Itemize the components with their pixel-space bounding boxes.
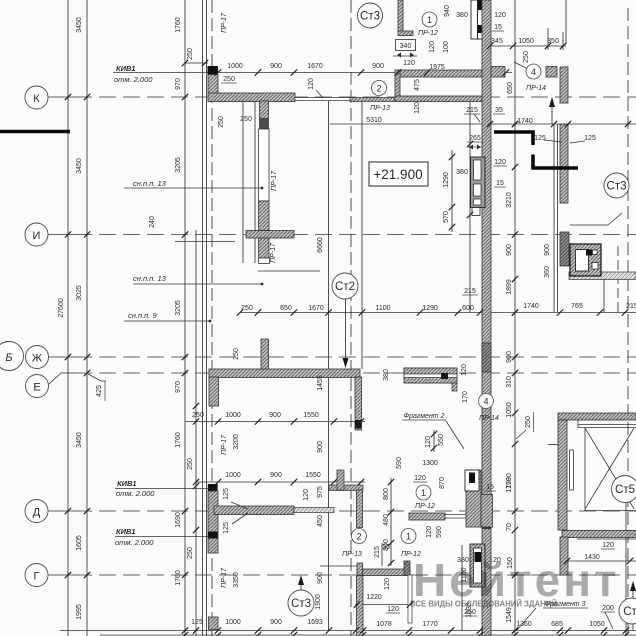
svg-text:250: 250 <box>218 116 225 128</box>
svg-text:6660: 6660 <box>317 237 324 253</box>
leader 215 K wall <box>474 114 480 122</box>
svg-text:1000: 1000 <box>225 412 241 419</box>
node axis-3 centerline <box>627 8 629 636</box>
dimension line 250 mini top <box>185 62 208 64</box>
PR-12 wall notch <box>481 495 493 528</box>
wire <box>67 0 69 636</box>
svg-text:120: 120 <box>308 78 315 90</box>
dimension line 5310/1740 <box>330 123 636 125</box>
svg-text:120: 120 <box>461 364 468 376</box>
wall top-left black pier <box>208 66 219 75</box>
elevator top band <box>558 413 636 420</box>
D axis band <box>214 506 294 515</box>
svg-text:360: 360 <box>544 266 551 278</box>
opening circle 4 mid <box>479 394 494 409</box>
svg-text:900: 900 <box>544 244 551 256</box>
elevator cab cross <box>585 428 634 509</box>
wire <box>562 32 564 50</box>
axis circle Г <box>25 564 48 587</box>
dimension line 1220 <box>355 604 410 606</box>
svg-text:1455: 1455 <box>317 375 324 391</box>
wire <box>320 565 357 567</box>
wall leg below pier <box>208 75 218 94</box>
Zh wall band <box>209 369 360 378</box>
svg-text:215: 215 <box>374 546 381 558</box>
wire <box>603 279 605 312</box>
svg-text:215: 215 <box>626 303 636 310</box>
svg-text:1760: 1760 <box>175 17 182 33</box>
svg-text:1550: 1550 <box>305 472 321 479</box>
elevator bottom band <box>562 531 636 538</box>
axis circle Е <box>26 375 49 398</box>
svg-text:170: 170 <box>462 391 469 403</box>
svg-text:250: 250 <box>223 76 235 83</box>
shaft mid ПР-12 <box>465 470 479 491</box>
dimension line 1430 <box>567 560 636 562</box>
svg-text:480: 480 <box>383 514 390 526</box>
leader fragment2 <box>446 421 464 449</box>
svg-text:3025: 3025 <box>76 285 83 301</box>
svg-text:900: 900 <box>270 63 282 70</box>
wire <box>625 503 627 636</box>
wire <box>565 0 567 44</box>
section circle Ст3 bottom <box>288 590 314 616</box>
svg-text:1: 1 <box>421 488 426 498</box>
svg-text:120: 120 <box>414 475 426 482</box>
opening circle 1 low <box>401 529 416 544</box>
wire <box>548 444 558 446</box>
dimension line bottom chain 2 <box>100 634 636 636</box>
leader 120 wall <box>316 90 323 98</box>
small band low-mid <box>329 485 363 491</box>
svg-text:550: 550 <box>438 434 445 446</box>
axis circle Б double <box>0 345 21 368</box>
svg-text:590: 590 <box>396 457 403 469</box>
svg-text:380: 380 <box>383 369 390 381</box>
wire <box>514 0 516 636</box>
svg-text:350: 350 <box>547 38 559 45</box>
svg-text:900: 900 <box>269 412 281 419</box>
svg-text:Ж: Ж <box>32 353 42 365</box>
svg-text:685: 685 <box>551 621 563 628</box>
I axis T-wall: dark foot <box>260 118 268 129</box>
svg-text:1770: 1770 <box>422 621 438 628</box>
svg-text:3210: 3210 <box>506 192 513 208</box>
node dot c <box>209 320 212 323</box>
line below elevator band <box>577 538 636 540</box>
axis Zh line <box>48 356 75 358</box>
svg-text:ПР-14: ПР-14 <box>479 415 499 422</box>
svg-text:3200: 3200 <box>233 434 240 450</box>
node dot b <box>261 283 264 286</box>
svg-text:870: 870 <box>439 477 446 489</box>
svg-text:1670: 1670 <box>307 63 323 70</box>
svg-text:250: 250 <box>192 412 204 419</box>
node КИВ1 leader mid <box>115 488 209 490</box>
D axis black pier 2 <box>208 532 218 539</box>
svg-text:1760: 1760 <box>175 432 182 448</box>
svg-text:900: 900 <box>270 472 282 479</box>
hatched square pier b <box>491 67 505 78</box>
svg-text:15: 15 <box>486 484 494 491</box>
svg-text:1690: 1690 <box>175 512 182 528</box>
axis circle И <box>25 223 48 246</box>
svg-text:ПР-14: ПР-14 <box>526 85 546 92</box>
svg-text:345: 345 <box>491 38 503 45</box>
leader 425 <box>88 374 106 381</box>
D axis lower leg hatch <box>209 617 219 630</box>
svg-text:КИВ1: КИВ1 <box>117 479 137 488</box>
elevator lower left wall <box>560 537 568 575</box>
dimension line bottom chain <box>60 630 636 632</box>
svg-text:970: 970 <box>175 78 182 90</box>
svg-text:240: 240 <box>149 216 156 228</box>
thick L1 <box>494 132 533 145</box>
wire <box>86 0 88 636</box>
svg-text:сн.п.п. 13: сн.п.п. 13 <box>133 179 167 188</box>
svg-text:35: 35 <box>495 107 503 114</box>
svg-text:215: 215 <box>466 107 478 114</box>
svg-text:125: 125 <box>584 135 596 142</box>
Zh wall left leg <box>209 377 219 406</box>
svg-text:340: 340 <box>400 43 412 50</box>
svg-text:КИВ1: КИВ1 <box>116 64 136 73</box>
PR-12 wall column <box>466 470 481 527</box>
axis E line <box>60 372 75 374</box>
svg-text:3205: 3205 <box>175 300 182 316</box>
wire <box>557 124 559 312</box>
svg-text:450: 450 <box>317 515 324 527</box>
svg-text:600: 600 <box>462 305 474 312</box>
svg-text:1000: 1000 <box>227 63 243 70</box>
svg-text:970: 970 <box>175 381 182 393</box>
svg-text:975: 975 <box>317 486 324 498</box>
svg-text:1220: 1220 <box>366 594 382 601</box>
dimension line 800/480/800 vertical <box>390 478 392 566</box>
svg-text:125: 125 <box>223 522 230 534</box>
dimension line 550/120 vertical <box>433 430 435 452</box>
svg-text:125: 125 <box>191 619 203 626</box>
leader E circle <box>49 374 60 384</box>
opening circle 2 low <box>352 529 367 544</box>
wall top room ПР-12 left <box>398 0 403 32</box>
svg-text:4: 4 <box>531 67 536 77</box>
svg-text:сн.п.п. 13: сн.п.п. 13 <box>133 274 167 283</box>
svg-text:570: 570 <box>443 211 450 223</box>
svg-text:1550: 1550 <box>303 412 319 419</box>
dimension line top <box>113 72 512 74</box>
node сн.п.п.13 line a <box>124 187 262 189</box>
G wall below <box>357 576 364 636</box>
leader circle4 top <box>514 62 526 68</box>
svg-text:100: 100 <box>443 41 450 53</box>
svg-text:ПР-17: ПР-17 <box>270 242 277 263</box>
node dot a <box>261 187 264 190</box>
section circle Ст4 bottom right <box>619 598 636 624</box>
elevator left wall <box>558 420 567 530</box>
svg-text:120: 120 <box>425 436 432 448</box>
svg-text:1360: 1360 <box>516 621 532 628</box>
shaft bottom <box>470 544 485 587</box>
node КИВ1 leader low <box>115 536 209 538</box>
svg-text:Ст5: Ст5 <box>615 484 635 496</box>
svg-text:200: 200 <box>602 605 614 612</box>
leader fragment3 <box>517 608 536 630</box>
svg-text:250: 250 <box>525 416 532 428</box>
svg-text:1290: 1290 <box>443 172 450 188</box>
svg-text:4: 4 <box>483 397 488 407</box>
wire <box>553 124 555 312</box>
svg-text:1605: 1605 <box>76 535 83 551</box>
wire <box>254 101 256 263</box>
wire <box>242 95 244 263</box>
wire <box>547 28 549 50</box>
svg-text:70: 70 <box>506 523 513 531</box>
svg-text:250: 250 <box>464 609 476 616</box>
svg-text:ПР-12: ПР-12 <box>418 30 438 37</box>
svg-text:250: 250 <box>241 305 253 312</box>
svg-text:1290: 1290 <box>422 305 438 312</box>
svg-text:125: 125 <box>534 135 546 142</box>
D axis thin band <box>294 508 334 513</box>
svg-text:1670: 1670 <box>308 305 324 312</box>
opening circle 4 top <box>526 64 541 79</box>
svg-text:120: 120 <box>602 542 614 549</box>
svg-text:КИВ1: КИВ1 <box>116 527 136 536</box>
svg-text:ПР-13: ПР-13 <box>342 551 362 558</box>
axis circle Д <box>25 500 48 523</box>
section circle Ст2 <box>332 273 358 299</box>
G wall left cap <box>357 563 363 575</box>
svg-text:ПР-17: ПР-17 <box>221 12 228 33</box>
I axis T-wall: white end <box>259 258 270 264</box>
beam detail <box>404 368 457 391</box>
wire <box>202 0 204 636</box>
svg-text:1000: 1000 <box>225 472 241 479</box>
dimension line 240 short <box>175 241 235 243</box>
wall top room ПР-12 corner <box>398 31 413 36</box>
svg-text:900: 900 <box>317 572 324 584</box>
wall room left <box>395 70 400 101</box>
svg-text:1740: 1740 <box>517 118 533 125</box>
svg-text:К: К <box>33 93 40 105</box>
svg-text:Ст2: Ст2 <box>335 281 355 293</box>
node axis-1 centerline <box>211 0 213 636</box>
svg-text:125: 125 <box>223 488 230 500</box>
svg-text:120: 120 <box>426 526 433 538</box>
svg-text:3450: 3450 <box>76 432 83 448</box>
svg-text:Ст3: Ст3 <box>291 598 311 610</box>
wall right column seg2 <box>560 124 568 203</box>
svg-text:120: 120 <box>494 159 506 166</box>
svg-text:3205: 3205 <box>175 157 182 173</box>
dimension line 340 <box>393 55 417 57</box>
svg-text:1995: 1995 <box>76 604 83 620</box>
wall room bottom band <box>395 96 488 102</box>
svg-text:765: 765 <box>571 303 583 310</box>
I axis T-wall: hatch upper <box>259 201 270 231</box>
svg-text:380: 380 <box>456 12 468 19</box>
svg-text:2: 2 <box>376 84 381 94</box>
axis circle K <box>25 86 48 109</box>
wire room line below I-wall <box>258 270 320 272</box>
opening circle 1 top <box>422 12 437 27</box>
svg-text:475: 475 <box>414 79 421 91</box>
thick wall line left <box>0 130 70 134</box>
svg-text:ПР-12: ПР-12 <box>415 503 435 510</box>
dimension line right bottom vertical <box>461 545 463 631</box>
svg-text:120: 120 <box>384 578 391 590</box>
svg-text:800: 800 <box>383 488 390 500</box>
box 340 <box>396 40 416 58</box>
svg-text:310: 310 <box>506 376 513 388</box>
I axis T-wall: band <box>246 231 294 239</box>
section circle Ст5 <box>612 476 636 503</box>
svg-text:120: 120 <box>303 489 310 501</box>
axis I line <box>48 234 75 236</box>
axis K line <box>48 96 75 98</box>
dimension line 215/35 vertical <box>381 543 383 566</box>
svg-text:265: 265 <box>469 135 481 142</box>
wall band right of P detail <box>569 272 636 280</box>
svg-text:5310: 5310 <box>366 117 382 124</box>
section stem Ст3 bottom <box>300 577 302 590</box>
svg-text:120: 120 <box>387 606 399 613</box>
small wall piece low-mid <box>337 470 344 490</box>
svg-text:Е: Е <box>33 382 40 394</box>
wall lintel thin <box>295 98 350 101</box>
PR-12 band <box>409 513 445 520</box>
dimension line 1290/570 vertical <box>451 150 453 232</box>
svg-text:Ст3: Ст3 <box>607 181 627 193</box>
wall right column seg1 <box>560 67 568 103</box>
P-detail shaft <box>570 244 601 276</box>
svg-text:отм. 2.000: отм. 2.000 <box>116 489 155 498</box>
svg-text:1100: 1100 <box>375 305 390 312</box>
dimension line 1000-900-1550 upper <box>185 421 365 423</box>
wire shaft inner face <box>469 101 471 312</box>
svg-text:900: 900 <box>372 63 384 70</box>
I axis T-wall: white panel <box>259 129 270 201</box>
dimension line mid <box>240 312 636 314</box>
svg-text:Д: Д <box>33 507 41 519</box>
svg-text:590: 590 <box>436 526 443 538</box>
elevator door lines <box>578 424 636 426</box>
svg-text:15: 15 <box>496 180 504 187</box>
svg-text:ПР-17: ПР-17 <box>221 434 228 455</box>
leader 125 D-axis b <box>232 513 248 524</box>
svg-text:650: 650 <box>280 305 292 312</box>
svg-text:250: 250 <box>240 116 252 123</box>
svg-text:3350: 3350 <box>233 572 240 588</box>
svg-text:3450: 3450 <box>76 17 83 33</box>
svg-text:1050: 1050 <box>518 38 534 45</box>
wall band K axis <box>208 93 295 102</box>
wire <box>206 0 208 636</box>
svg-text:900: 900 <box>506 351 513 363</box>
svg-text:250: 250 <box>187 458 194 470</box>
leader 125 D-axis a <box>231 502 248 509</box>
wall right column dark seg at I axis <box>560 232 569 266</box>
dimension line 350 <box>488 45 566 47</box>
svg-text:650: 650 <box>507 82 514 94</box>
leader 125 right <box>570 141 585 143</box>
svg-text:ПР-17: ПР-17 <box>271 170 278 191</box>
D axis T-wall: black pier 1 <box>208 484 218 491</box>
svg-text:ВСЕ ВИДЫ ОБСЛЕДОВАНИЙ ЗДАНИЙ: ВСЕ ВИДЫ ОБСЛЕДОВАНИЙ ЗДАНИЙ <box>410 600 557 609</box>
svg-text:1300: 1300 <box>422 460 438 467</box>
wire <box>184 0 186 636</box>
svg-text:ПР-13: ПР-13 <box>370 105 390 112</box>
svg-text:Нейтент: Нейтент <box>413 554 620 606</box>
node axis-2 centerline <box>350 0 352 636</box>
I axis T-wall: hatch lower <box>259 238 270 258</box>
svg-text:425: 425 <box>96 385 103 397</box>
svg-text:Ст3: Ст3 <box>360 11 380 23</box>
svg-text:И: И <box>33 230 41 242</box>
svg-text:900: 900 <box>506 244 513 256</box>
dimension tick marks <box>182 60 188 66</box>
svg-text:отм. 2.000: отм. 2.000 <box>114 75 153 84</box>
svg-text:900: 900 <box>270 619 282 626</box>
svg-text:Г: Г <box>34 571 40 583</box>
svg-text:215: 215 <box>464 288 476 295</box>
I axis T-wall: leg hatch <box>260 101 269 129</box>
wall room top band <box>395 70 488 77</box>
central wall darker segments <box>482 343 491 372</box>
wall strip mid-low room <box>357 490 363 528</box>
opening circle 2 top <box>372 81 387 96</box>
svg-text:1549: 1549 <box>506 607 513 623</box>
wire <box>361 101 363 369</box>
svg-text:940: 940 <box>444 5 451 17</box>
shaft top frame <box>471 0 478 39</box>
node сн.п.п.13 line b <box>133 283 262 285</box>
central wall column <box>482 0 491 636</box>
svg-text:отм. 2.000: отм. 2.000 <box>115 538 154 547</box>
svg-text:250: 250 <box>523 51 530 63</box>
leader St3 right <box>570 213 622 225</box>
svg-text:380: 380 <box>456 169 468 176</box>
svg-text:120: 120 <box>429 41 436 53</box>
node axis-4 centerline <box>617 246 619 312</box>
svg-text:Фрагмент 2: Фрагмент 2 <box>404 413 445 420</box>
svg-text:+21.900: +21.900 <box>373 167 422 182</box>
svg-text:1000: 1000 <box>225 619 241 626</box>
Zh wall right leg black foot <box>355 420 362 429</box>
svg-text:1900: 1900 <box>315 594 322 610</box>
svg-text:27600: 27600 <box>58 298 65 318</box>
leader 250 right col <box>516 430 526 439</box>
wall band thin hatched <box>350 98 398 102</box>
wire <box>195 230 197 636</box>
svg-text:3450: 3450 <box>76 158 83 174</box>
svg-text:120: 120 <box>414 102 421 114</box>
svg-text:1: 1 <box>406 532 411 542</box>
Zh wall upper leg <box>261 339 269 369</box>
elevation box +21.900 <box>369 162 428 186</box>
svg-text:1: 1 <box>427 15 432 25</box>
axis circle Ж <box>26 346 49 369</box>
svg-text:1760: 1760 <box>175 570 182 586</box>
elevator door jamb <box>570 450 574 490</box>
svg-text:250: 250 <box>187 547 194 559</box>
leader 200 <box>605 612 613 629</box>
Zh wall right leg <box>355 377 362 430</box>
svg-text:250: 250 <box>233 348 240 360</box>
shaft mid (riser detail) <box>471 157 486 216</box>
axis D line <box>48 510 75 512</box>
